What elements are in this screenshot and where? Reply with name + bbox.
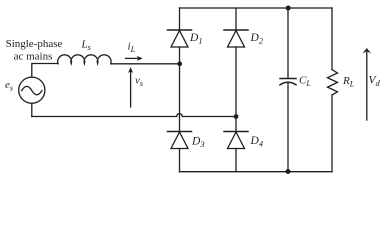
wire bottom ac with hop over left rail (32, 114, 234, 117)
wire left bridge rail upper (179, 8, 181, 30)
voltage arrow v_s (128, 67, 133, 107)
diode D3 (168, 132, 192, 149)
capacitor C_L (280, 79, 296, 85)
wire top rail (180, 7, 333, 9)
wire right bridge rail middle (235, 47, 237, 132)
diode D4 (224, 132, 248, 149)
ac source e_s (19, 77, 45, 103)
label "Single-phase ac mains" (6, 38, 63, 63)
wire inductor to bridge (111, 63, 180, 65)
wire capacitor branch lower (287, 84, 289, 172)
current arrow i_L (126, 56, 143, 61)
resistor R_L (328, 70, 338, 96)
wire source bottom (31, 103, 33, 116)
node junction dot AC1 (177, 61, 182, 66)
node junction dot bottom of capacitor branch (286, 169, 291, 174)
node junction dot AC2 (234, 114, 239, 119)
wire right bridge rail upper (235, 8, 237, 30)
wire load branch lower (331, 95, 333, 172)
wire bottom rail (180, 171, 333, 173)
wire left bridge rail lower (179, 149, 181, 172)
svg-text:Single-phase: Single-phase (6, 38, 63, 50)
inductor L_s (58, 55, 111, 64)
voltage arrow V_d (363, 48, 372, 120)
wire right bridge rail lower (235, 149, 237, 172)
node junction dot top of capacitor branch (286, 6, 291, 11)
diode D1 (168, 30, 192, 47)
diode D2 (224, 30, 248, 47)
wire capacitor branch upper (287, 8, 289, 79)
wire left bridge rail middle (179, 47, 181, 132)
wire load branch upper (331, 8, 333, 70)
svg-text:ac mains: ac mains (14, 51, 53, 63)
wire source top to inductor (32, 64, 58, 78)
